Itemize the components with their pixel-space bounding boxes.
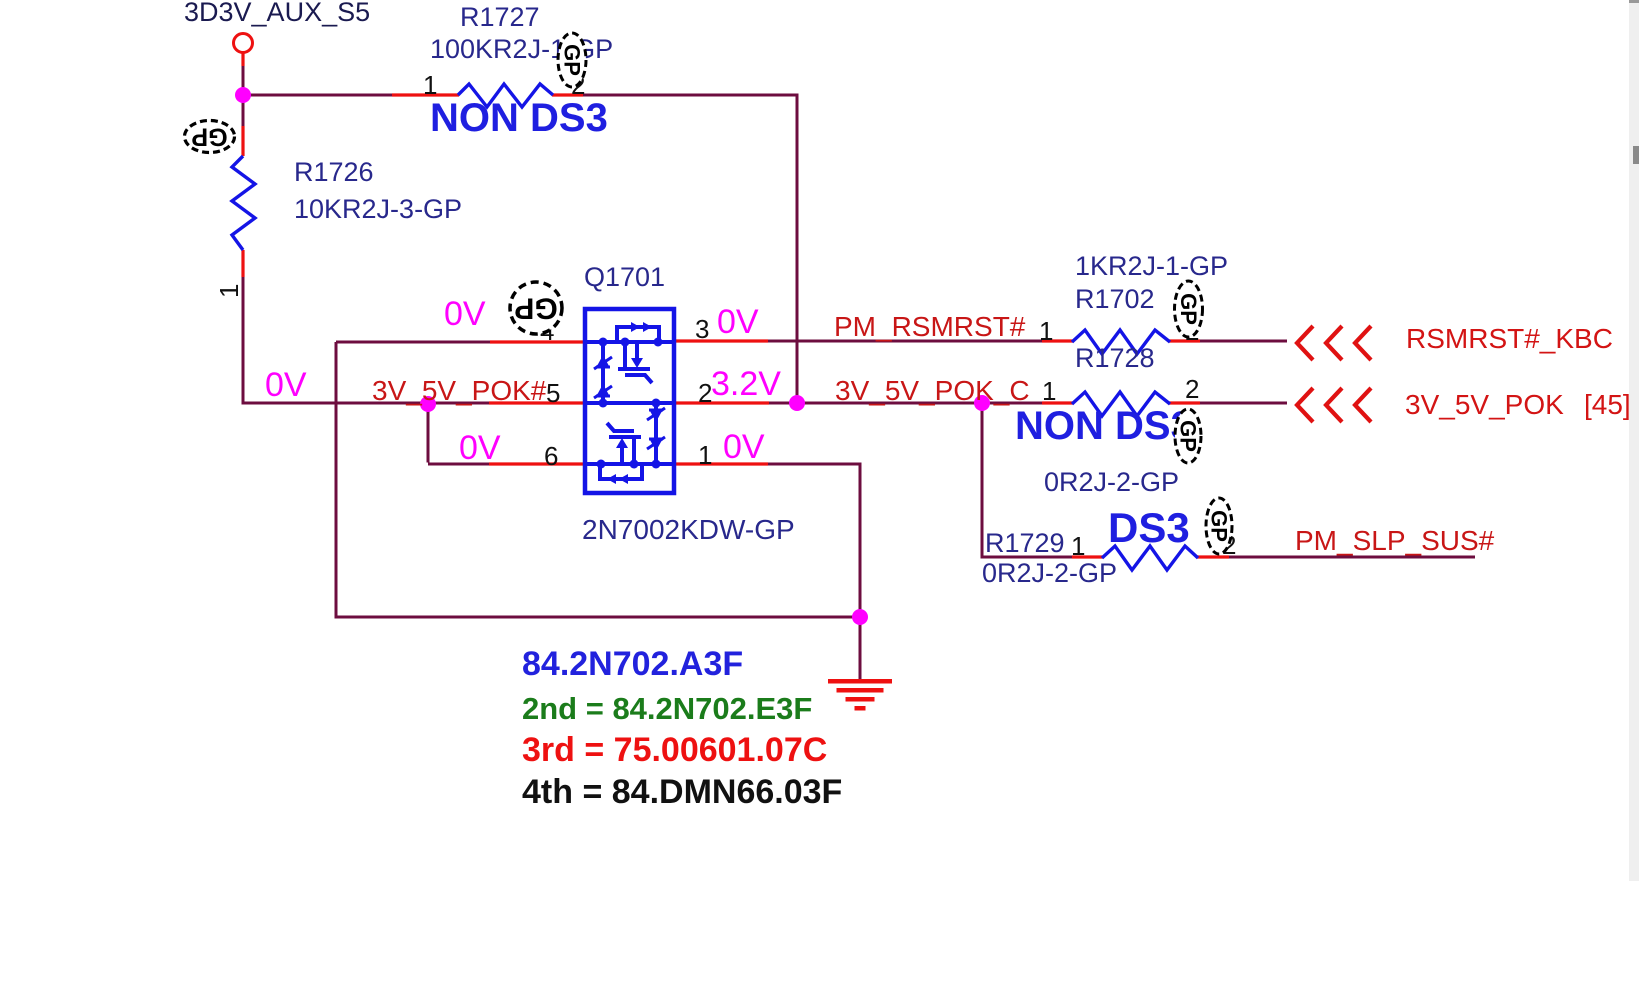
svg-text:1: 1 bbox=[214, 284, 244, 298]
svg-text:4th = 84.DMN66.03F: 4th = 84.DMN66.03F bbox=[522, 773, 842, 811]
svg-text:0V: 0V bbox=[717, 303, 759, 341]
svg-text:2: 2 bbox=[1185, 374, 1199, 404]
svg-text:R1702: R1702 bbox=[1075, 284, 1155, 314]
svg-text:R1729: R1729 bbox=[985, 528, 1065, 558]
svg-text:3D3V_AUX_S5: 3D3V_AUX_S5 bbox=[184, 0, 370, 27]
svg-text:GP: GP bbox=[1176, 420, 1201, 452]
svg-text:NON DS3: NON DS3 bbox=[1015, 404, 1193, 448]
svg-text:0V: 0V bbox=[723, 428, 765, 466]
svg-text:R1727: R1727 bbox=[460, 2, 540, 32]
svg-text:R1726: R1726 bbox=[294, 157, 374, 187]
svg-text:R1728: R1728 bbox=[1075, 343, 1155, 373]
svg-text:3rd = 75.00601.07C: 3rd = 75.00601.07C bbox=[522, 731, 827, 769]
svg-text:10KR2J-3-GP: 10KR2J-3-GP bbox=[294, 194, 462, 224]
svg-text:1: 1 bbox=[698, 440, 712, 470]
svg-text:PM_RSMRST#: PM_RSMRST# bbox=[834, 311, 1026, 342]
svg-text:DS3: DS3 bbox=[1108, 504, 1190, 551]
svg-text:2N7002KDW-GP: 2N7002KDW-GP bbox=[582, 514, 795, 545]
svg-text:NON DS3: NON DS3 bbox=[430, 96, 608, 140]
svg-text:3.2V: 3.2V bbox=[711, 365, 781, 403]
svg-text:Q1701: Q1701 bbox=[584, 262, 665, 292]
svg-text:84.2N702.A3F: 84.2N702.A3F bbox=[522, 645, 743, 683]
svg-text:GP: GP bbox=[191, 123, 227, 151]
svg-text:3V_5V_POK: 3V_5V_POK bbox=[1405, 389, 1564, 420]
svg-text:GP: GP bbox=[1176, 293, 1201, 325]
svg-text:0V: 0V bbox=[444, 295, 486, 333]
svg-text:0V: 0V bbox=[459, 429, 501, 467]
svg-text:1: 1 bbox=[1042, 376, 1056, 406]
svg-text:GP: GP bbox=[1207, 510, 1232, 542]
svg-text:3V_5V_POK#: 3V_5V_POK# bbox=[372, 375, 547, 406]
svg-text:3V_5V_POK_C: 3V_5V_POK_C bbox=[835, 375, 1030, 406]
svg-text:[45]: [45] bbox=[1584, 389, 1631, 420]
svg-text:6: 6 bbox=[544, 441, 558, 471]
svg-text:3: 3 bbox=[695, 314, 709, 344]
svg-text:RSMRST#_KBC: RSMRST#_KBC bbox=[1406, 323, 1613, 354]
svg-text:1: 1 bbox=[1071, 531, 1085, 561]
svg-text:0R2J-2-GP: 0R2J-2-GP bbox=[982, 558, 1117, 588]
svg-text:0R2J-2-GP: 0R2J-2-GP bbox=[1044, 467, 1179, 497]
svg-text:5: 5 bbox=[546, 378, 560, 408]
svg-text:0V: 0V bbox=[265, 366, 307, 404]
svg-text:GP: GP bbox=[560, 44, 585, 76]
svg-text:2nd = 84.2N702.E3F: 2nd = 84.2N702.E3F bbox=[522, 691, 812, 726]
svg-text:1: 1 bbox=[1039, 316, 1053, 346]
svg-text:PM_SLP_SUS#: PM_SLP_SUS# bbox=[1295, 525, 1495, 556]
svg-text:GP: GP bbox=[514, 292, 557, 325]
svg-text:1KR2J-1-GP: 1KR2J-1-GP bbox=[1075, 251, 1228, 281]
